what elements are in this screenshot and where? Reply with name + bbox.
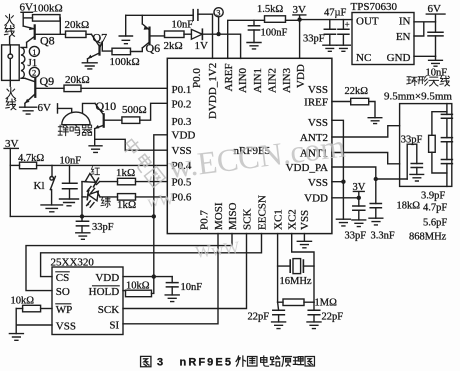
ground (33pF VDD right) <box>352 220 366 227</box>
capacitor 33pF (rail) <box>76 216 113 232</box>
capacitor 5.6pF <box>423 142 452 229</box>
power terminal 3V (left) <box>4 138 18 150</box>
ground (22kΩ) <box>368 118 382 124</box>
ground (Q9 emitter) <box>20 107 37 114</box>
wire 6V feed <box>22 12 24 26</box>
svg-text:P0.3: P0.3 <box>172 116 192 128</box>
svg-text:VDD: VDD <box>172 130 196 142</box>
LED red <box>82 167 100 193</box>
ground (33pF 3V) <box>323 45 337 51</box>
junction dot 3V <box>297 17 301 21</box>
resistor 20kΩ (Q9 to P0.1) <box>64 74 167 91</box>
pin WP (with overline) <box>56 304 73 316</box>
svg-text:VSS: VSS <box>308 177 328 189</box>
svg-text:22kΩ: 22kΩ <box>345 86 369 97</box>
ground (Q10 emitter) <box>89 139 102 152</box>
pin HOLD (with overline) <box>89 286 120 298</box>
resistor 10kΩ (WP pull-down) <box>11 295 53 312</box>
svg-text:Q9: Q9 <box>40 74 55 88</box>
junction dot node 3 <box>216 32 220 36</box>
svg-text:MOSI: MOSI <box>213 202 225 230</box>
svg-text:20kΩ: 20kΩ <box>65 19 90 31</box>
ground (3.3nF) <box>369 218 383 225</box>
svg-text:HOLD: HOLD <box>89 286 120 298</box>
junction dot VDD 25XX320 <box>152 274 156 278</box>
resistor 100kΩ (Q7 to Q6) <box>110 48 143 68</box>
antenna loop frame <box>400 104 452 187</box>
ground (33pF rail) <box>76 233 90 240</box>
resistor 1MΩ <box>278 298 337 309</box>
capacitor 10nF (node A) <box>60 156 82 199</box>
svg-text:18kΩ: 18kΩ <box>397 201 421 212</box>
capacitor 100nF <box>248 20 287 42</box>
resistor 1kΩ (red LED) <box>100 167 168 185</box>
junction dot rail/VDD line <box>152 214 156 218</box>
svg-text:AIN0: AIN0 <box>237 67 249 93</box>
svg-text:5.6pF: 5.6pF <box>423 218 447 229</box>
ground (47µF) <box>337 45 351 51</box>
svg-text:100kΩ: 100kΩ <box>33 3 63 15</box>
pin CS (with overline) <box>56 272 69 284</box>
ground (25XX320) <box>9 334 23 341</box>
capacitor 33pF (VDD right) <box>345 198 367 242</box>
svg-text:4.7pF: 4.7pF <box>423 203 447 214</box>
wire 3V to VDD pin <box>299 20 301 59</box>
svg-text:VSS: VSS <box>308 117 328 129</box>
svg-text:P0.0: P0.0 <box>191 68 203 88</box>
svg-text:Q8: Q8 <box>40 34 55 48</box>
wire SCK to SCK <box>123 234 247 309</box>
VDD vertical link (nRF9E5 VDD - rail - 25XX320 VDD) <box>154 135 168 277</box>
ground (100nF) <box>247 43 261 49</box>
wire VDD 25XX320 <box>123 276 172 278</box>
svg-text:WwW: WwW <box>194 238 241 262</box>
junction dot VDD_PA <box>374 177 378 181</box>
capacitor 4.7pF <box>423 118 452 213</box>
svg-text:VSS: VSS <box>308 84 328 96</box>
ground (10nF node A) <box>60 199 79 206</box>
svg-text:1: 1 <box>32 47 36 57</box>
svg-text:AIN2: AIN2 <box>267 68 279 93</box>
live wire label top <box>4 14 14 36</box>
IC 25XX320 <box>51 257 124 335</box>
top rail (ground / Q6 emitter / 10nF) <box>126 14 194 16</box>
svg-text:1V: 1V <box>195 40 209 52</box>
LED green <box>82 190 110 208</box>
svg-text:Q7: Q7 <box>93 31 108 45</box>
svg-text:Q10: Q10 <box>96 99 117 113</box>
svg-text:AREF: AREF <box>223 63 235 91</box>
capacitor 33pF (antenna bias) <box>401 134 423 179</box>
svg-text:9.5mm×9.5mm: 9.5mm×9.5mm <box>384 91 452 103</box>
svg-text:1kΩ: 1kΩ <box>116 167 135 179</box>
svg-text:2kΩ: 2kΩ <box>164 40 183 52</box>
ground (top rail) <box>119 15 132 43</box>
svg-text:IN: IN <box>399 16 411 28</box>
buzzer label <box>58 125 91 136</box>
svg-text:VDD: VDD <box>295 64 307 88</box>
svg-text:VSS: VSS <box>56 320 76 332</box>
ground (K1) <box>41 205 63 212</box>
resistor 18kΩ (antenna) <box>397 112 447 212</box>
capacitor 3.9pF <box>421 104 452 202</box>
wire DVDD_1V2 drop <box>212 14 214 58</box>
terminal 1 <box>29 46 39 56</box>
resistor 20kΩ (Q8 to Q7) <box>65 19 92 38</box>
capacitor 10nF (6V input) <box>428 32 443 56</box>
transformer J1 sensor window <box>2 45 20 81</box>
svg-text:868MHz: 868MHz <box>409 232 447 243</box>
caption <box>141 356 315 369</box>
svg-text:WP: WP <box>56 304 73 316</box>
svg-text:EN: EN <box>396 31 411 43</box>
svg-text:+: + <box>345 20 350 30</box>
svg-text:SI: SI <box>109 319 119 331</box>
wire GND pin <box>414 55 436 57</box>
wire VSS chain (right) <box>332 120 344 219</box>
ground (TPS GND) <box>429 56 443 66</box>
coil J1 secondary winding <box>21 47 27 78</box>
svg-text:500Ω: 500Ω <box>122 104 147 116</box>
wire XC2 <box>292 234 314 303</box>
svg-text:6V: 6V <box>428 3 442 15</box>
svg-text:3: 3 <box>216 8 220 18</box>
svg-text:33pF: 33pF <box>345 231 367 242</box>
svg-text:16MHz: 16MHz <box>280 276 312 287</box>
svg-text:XC2: XC2 <box>287 209 299 230</box>
diode 1V <box>191 29 218 52</box>
power terminal 6V (buzzer) <box>38 102 58 114</box>
power terminal 3V (right) <box>353 182 366 198</box>
svg-text:MISO: MISO <box>227 202 239 230</box>
svg-text:SCK: SCK <box>98 304 119 316</box>
svg-text:GND: GND <box>387 52 411 64</box>
transistor Q9 (NPN) <box>25 74 64 107</box>
label loop antenna <box>407 76 450 87</box>
node 3 terminal <box>214 8 223 34</box>
svg-text:33pF: 33pF <box>92 222 114 233</box>
LED supply stem <box>81 182 83 217</box>
ground (22pF XC1) <box>272 322 286 329</box>
3V rail (bottom) <box>10 215 154 217</box>
svg-text:100nF: 100nF <box>261 27 288 38</box>
wire IN / EN to 6V <box>414 22 436 36</box>
resistor 100kΩ (Q8 bias) <box>23 3 62 35</box>
wire 3V down <box>9 148 11 216</box>
svg-text:P0.6: P0.6 <box>172 192 192 204</box>
svg-text:3.3nF: 3.3nF <box>371 231 395 242</box>
wire MISO to SO <box>26 234 232 291</box>
junction dot rail/LED <box>80 214 84 218</box>
ground (10nF 25XX320) <box>165 295 179 302</box>
transistor Q10 (NPN) <box>95 99 122 139</box>
svg-text:P0.2: P0.2 <box>172 98 192 110</box>
terminal 2 <box>29 67 39 77</box>
capacitor 10nF (25XX320) <box>166 277 202 295</box>
resistor 1kΩ (green LED) <box>100 194 167 211</box>
wire WP node to ground / VSS <box>16 309 52 334</box>
junction dot VSS chain <box>341 180 345 184</box>
svg-text:AIN1: AIN1 <box>252 68 264 93</box>
ground (antenna 33pF) <box>410 174 424 181</box>
transistor Q6 (PNP) <box>142 15 164 55</box>
svg-text:AIN3: AIN3 <box>281 67 293 93</box>
svg-text:VDD: VDD <box>95 272 119 284</box>
svg-text:Q6: Q6 <box>146 41 161 55</box>
svg-text:TPS70630: TPS70630 <box>351 1 398 13</box>
resistor 4.7kΩ <box>10 153 44 169</box>
svg-text:1MΩ: 1MΩ <box>315 298 338 309</box>
resistor 500Ω (Q10 base) <box>122 103 167 123</box>
power terminal 6V (right) <box>426 3 445 32</box>
watermark <box>121 128 347 262</box>
wire XC1 <box>277 234 279 303</box>
resistor 22kΩ (IREF) <box>332 86 375 118</box>
ground (VSS bottom pin) <box>297 234 311 248</box>
transistor Q7 (NPN) <box>88 31 113 63</box>
svg-text:NC: NC <box>356 52 371 64</box>
wire AREF <box>228 20 265 58</box>
ground (Q7 emitter) <box>82 63 97 69</box>
wire Q10 emitter to VSS pin <box>95 139 168 150</box>
svg-text:1.5kΩ: 1.5kΩ <box>257 4 283 15</box>
capacitor 22pF (XC2) <box>308 302 343 322</box>
wire node A to P0.4 <box>37 164 168 166</box>
svg-text:33pF: 33pF <box>303 33 325 44</box>
capacitor 22pF (XC1) <box>248 302 285 322</box>
wire 6V to buzzer <box>58 108 72 112</box>
ground (VSS chain) <box>336 219 350 226</box>
capacitor 47µF (polarized) <box>324 8 350 46</box>
svg-text:nRF9E5: nRF9E5 <box>180 357 234 369</box>
svg-text:VSS: VSS <box>299 210 311 230</box>
svg-text:CS: CS <box>56 272 69 284</box>
svg-text:10nF: 10nF <box>60 156 82 167</box>
svg-text:2: 2 <box>32 68 36 78</box>
wire VDD right pin <box>332 197 359 199</box>
live wire label bottom <box>6 88 16 110</box>
resistor 2kΩ <box>164 31 192 52</box>
power terminal 3V (top) <box>293 4 307 20</box>
svg-text:XC1: XC1 <box>272 209 284 230</box>
svg-text:10nF: 10nF <box>172 20 194 31</box>
svg-text:22pF: 22pF <box>248 311 270 322</box>
svg-text:47µF: 47µF <box>324 8 347 19</box>
svg-text:EECSN: EECSN <box>256 195 268 230</box>
svg-text:3.9pF: 3.9pF <box>421 191 445 202</box>
svg-text:1kΩ: 1kΩ <box>117 199 136 211</box>
resistor 10kΩ (HOLD) <box>123 277 154 297</box>
capacitor 3.3nF (VDD_PA) <box>370 179 395 242</box>
capacitor 33pF (3V rail) <box>303 20 336 46</box>
wire node 3 to AIN0 <box>219 34 241 58</box>
crystal 16MHz <box>278 259 314 287</box>
wire live line bottom <box>9 80 11 86</box>
power terminal 6V (top left) <box>20 2 34 14</box>
svg-text:100kΩ: 100kΩ <box>110 56 140 68</box>
wire 3V to TPS OUT <box>300 19 352 21</box>
resistor 1.5kΩ <box>257 4 300 22</box>
svg-text:SO: SO <box>56 286 70 298</box>
wire ANT1 <box>332 153 400 164</box>
svg-text:wW: wW <box>146 191 175 211</box>
svg-text:3: 3 <box>157 357 163 369</box>
switch K1 <box>34 165 56 205</box>
IC TPS70630 <box>351 1 415 65</box>
ground (22pF XC2) <box>307 322 321 329</box>
svg-text:OUT: OUT <box>356 16 379 28</box>
svg-text:10nF: 10nF <box>181 282 203 293</box>
svg-text:SCK: SCK <box>241 209 253 230</box>
transistor Q8 (PNP) <box>23 25 65 47</box>
svg-text:20kΩ: 20kΩ <box>65 74 90 86</box>
svg-text:22pF: 22pF <box>322 311 344 322</box>
svg-text:IREF: IREF <box>304 96 328 108</box>
capacitor 10nF (series coupling, top) <box>172 10 213 31</box>
wire MOSI to SI <box>123 234 218 324</box>
svg-text:P0.7: P0.7 <box>198 210 210 230</box>
svg-text:P0.1: P0.1 <box>172 84 192 96</box>
wire live line top <box>9 37 11 45</box>
junction dot VDD right <box>357 196 361 200</box>
svg-text:DVDD_1V2: DVDD_1V2 <box>207 63 219 119</box>
wire VDD_PA <box>332 167 407 179</box>
buzzer (dome) <box>62 103 95 124</box>
svg-text:6V: 6V <box>38 102 52 114</box>
wire EECSN to CS <box>41 234 262 277</box>
svg-text:VDD: VDD <box>304 192 328 204</box>
svg-text:Kl: Kl <box>34 180 45 192</box>
wire ANT2 <box>332 126 400 137</box>
